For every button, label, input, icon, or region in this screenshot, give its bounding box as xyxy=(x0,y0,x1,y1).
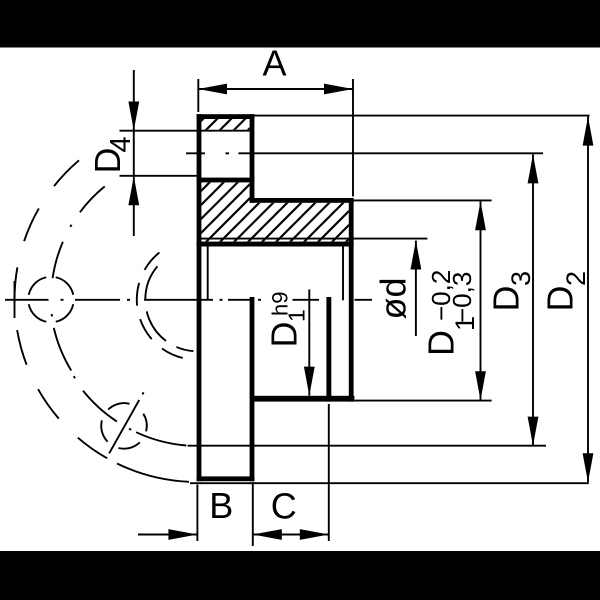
svg-text:3: 3 xyxy=(506,271,536,286)
svg-text:D: D xyxy=(486,286,527,312)
svg-text:D: D xyxy=(264,322,305,348)
svg-text:C: C xyxy=(271,486,297,527)
svg-text:−0,3: −0,3 xyxy=(447,272,477,323)
svg-text:B: B xyxy=(209,485,233,526)
svg-text:2: 2 xyxy=(561,271,591,286)
svg-text:A: A xyxy=(262,43,286,84)
svg-text:4: 4 xyxy=(105,136,137,152)
svg-text:h9: h9 xyxy=(268,292,293,316)
svg-text:D: D xyxy=(421,330,462,356)
svg-text:ød: ød xyxy=(373,277,414,319)
svg-text:D: D xyxy=(540,286,581,312)
